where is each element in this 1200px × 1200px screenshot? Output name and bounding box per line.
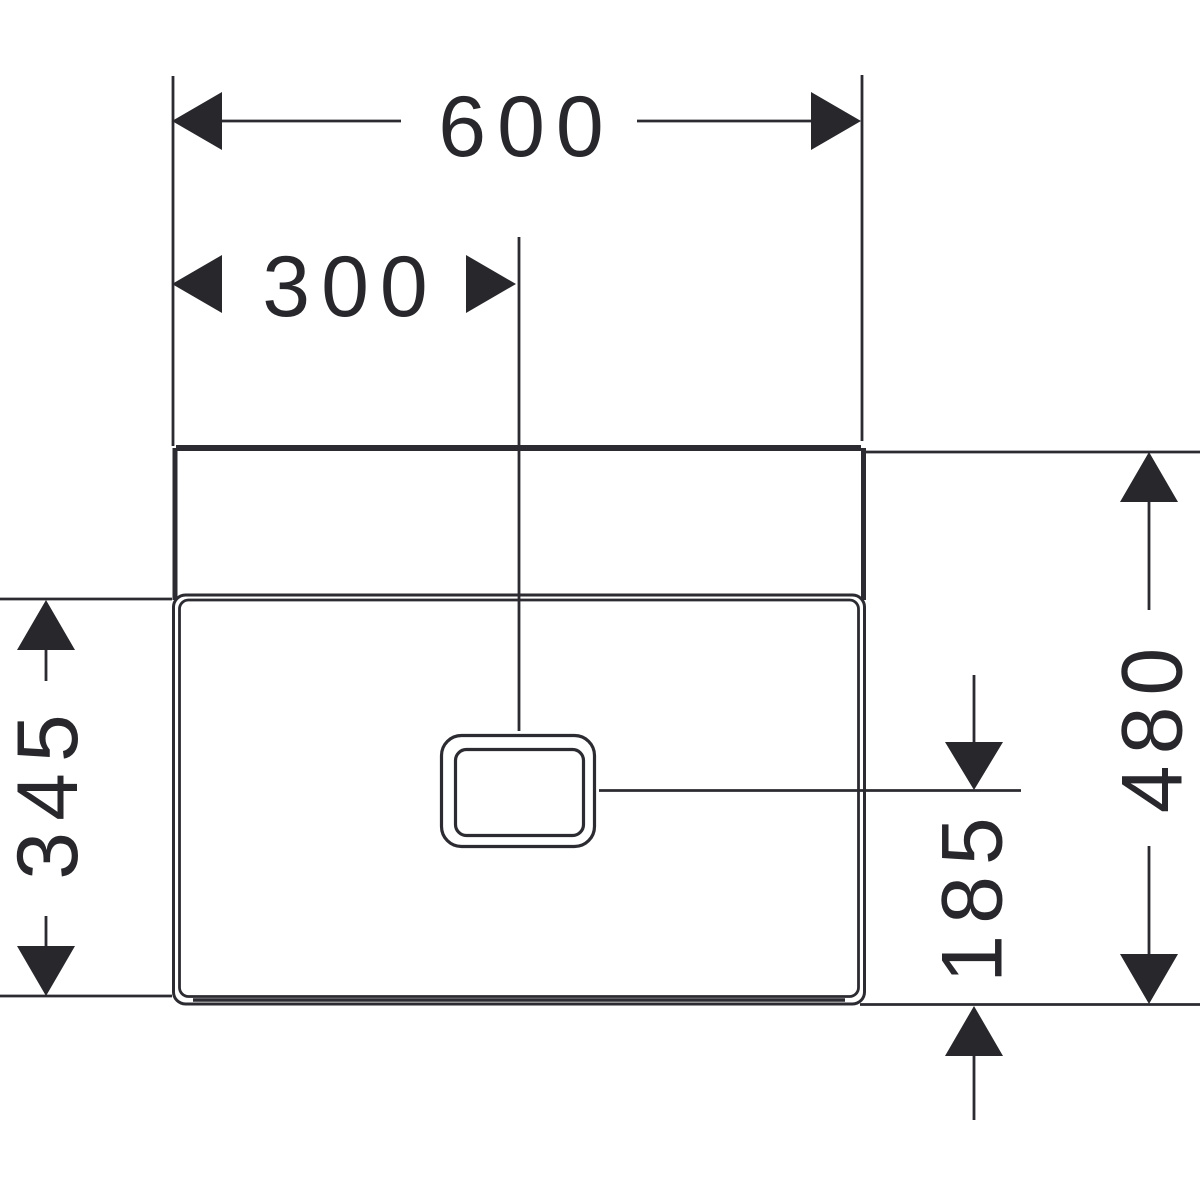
svg-text:185: 185 — [925, 806, 1021, 983]
svg-text:300: 300 — [262, 239, 439, 335]
svg-text:345: 345 — [0, 703, 96, 880]
svg-text:600: 600 — [438, 79, 615, 175]
svg-text:480: 480 — [1105, 637, 1200, 814]
